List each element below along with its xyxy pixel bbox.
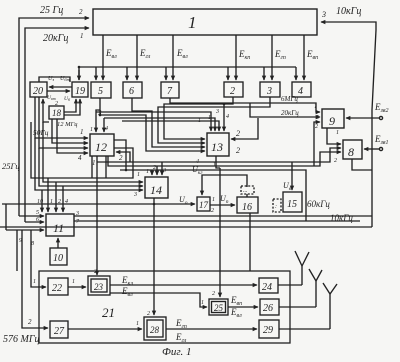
block 25 [209,299,228,315]
block 8 [343,140,362,159]
svg-text:4: 4 [78,154,82,162]
wire 12 bottom stub b [105,156,107,178]
svg-text:25Гц: 25Гц [2,161,20,171]
wire x6 down [5,204,7,230]
junction dot e [78,66,81,69]
wire bundle A3 to 14 [39,148,143,186]
svg-text:1: 1 [80,128,84,136]
svg-text:Eвл: Eвл [121,286,133,298]
wire 23 out Evl [110,293,207,307]
wire 20кГц to 9 [250,103,320,117]
wire to 12 pin4 [103,118,105,132]
wire tap to 11 pin1 [47,178,49,212]
svg-text:2: 2 [334,158,337,164]
wire Uo into 17 [154,203,195,205]
svg-text:576 МГц: 576 МГц [3,334,40,345]
svg-text:2: 2 [147,311,150,317]
wire 20 to 19 lower [47,90,70,92]
wire 5 branch to 12 pin1 [96,110,100,132]
wire 12 right down to band [114,140,126,170]
svg-text:5: 5 [98,86,103,97]
svg-text:Uз: Uз [48,76,54,82]
svg-text:20кГц: 20кГц [281,109,299,117]
wire tap to 11 pin10 [41,190,43,212]
terminal Ezv1 [364,134,388,151]
band line b3 [120,170,306,221]
svg-text:Eвл: Eвл [105,48,117,60]
svg-text::: : [275,204,277,210]
wire branch to 5 [95,67,97,80]
block 18 [49,106,64,119]
wire bundle A1 to 12 right [31,122,133,178]
block 2 [224,82,243,97]
wire 12 bottom to 23 [96,156,98,275]
junction dot b [223,103,226,106]
wire down to 25 [219,168,221,297]
svg-text:1: 1 [72,279,75,285]
svg-text:Фиг. 1: Фиг. 1 [162,346,192,358]
svg-text:5: 5 [36,210,39,216]
wire Uv to 15 [291,162,293,190]
svg-text:4: 4 [226,113,229,120]
svg-text:Uбт: Uбт [60,76,71,82]
wire 20 kHz input [25,28,89,222]
svg-text:1: 1 [314,104,317,110]
block 4 [292,82,311,97]
bus under block 1 [79,67,296,80]
wire 12 bottom stub [91,156,93,178]
svg-text:12 МГц: 12 МГц [57,121,78,128]
antenna 2 [309,269,322,307]
svg-text:Eгл: Eгл [175,332,187,344]
wire left pin line y230 [6,229,44,231]
wire 13 top pin3 line [122,121,219,131]
block 1 [93,9,317,35]
block 27 [50,321,68,338]
svg-text:20: 20 [33,86,43,97]
wire 6МГц to 9 [170,98,320,112]
wire Evp [303,35,305,80]
svg-text:Eгп: Eгп [274,49,286,61]
svg-text:10: 10 [37,199,43,205]
wire 14 bottom to 28 [153,198,155,315]
wire 26 to antenna2 [279,306,316,308]
block 15 [283,192,302,212]
wire branch to 6 [126,67,128,80]
svg-text:2: 2 [211,208,214,214]
wire 13 top pin2 line [104,118,215,131]
svg-text:11: 11 [53,221,64,235]
block 19 [72,82,88,97]
svg-text:2: 2 [79,8,83,16]
wire Ekp [235,35,237,80]
svg-text:Eвп: Eвп [306,49,318,61]
block 26 [260,299,279,315]
svg-text:18: 18 [52,108,62,118]
wire 9 to 8 [327,128,341,144]
svg-text:13: 13 [211,140,223,154]
svg-text:21: 21 [102,305,115,320]
block 23 [88,276,110,295]
wire 14 top pin a [151,170,153,175]
wire 18 to 20 [43,99,49,122]
svg-text:1: 1 [208,115,211,121]
wire branch to 7 [165,67,167,80]
wire Egl [136,35,138,80]
block 14 [145,177,168,198]
svg-text:29: 29 [263,325,273,336]
svg-text:...: ... [243,188,248,194]
svg-text:4: 4 [298,86,303,97]
svg-text:Eзв1: Eзв1 [374,134,388,146]
wire 8 bottom [352,159,372,170]
block 22 [48,278,68,295]
wire 9 down to box21 [16,230,18,271]
svg-text:2: 2 [236,129,240,138]
svg-text:24: 24 [262,282,272,293]
svg-text:3: 3 [321,10,326,19]
svg-text:1: 1 [80,32,84,40]
svg-text:28: 28 [150,325,160,335]
wire tap to 11 pin2 [55,182,57,212]
wire Egp [271,35,273,80]
svg-text:5: 5 [316,115,319,121]
long horizontal Uo line [2,203,154,205]
svg-text:17: 17 [199,200,209,210]
svg-text:Uп: Uп [220,194,229,205]
wire 14 top pin c [161,162,163,175]
wire 13 top pin1 line [96,112,211,131]
svg-text:3: 3 [133,192,137,198]
svg-text:14: 14 [150,183,162,197]
svg-text:1: 1 [212,197,215,203]
antenna 3 [323,283,337,329]
wire branch to 4 [295,67,297,80]
svg-text:Eгл: Eгл [139,48,151,60]
wire 20 to 19 upper [49,86,72,88]
svg-text:6: 6 [129,86,134,97]
wire branch to 2 [227,67,229,80]
wire 18 to 19 b [64,99,80,115]
block 28 [144,317,166,340]
svg-text:22: 22 [52,283,62,294]
wire 13 bottom [216,156,220,168]
svg-text:8: 8 [348,145,354,159]
block 20 [30,82,47,97]
wire 16 dashed stub [246,194,248,197]
svg-text:20кГц: 20кГц [43,33,68,44]
svg-text:4: 4 [65,198,68,205]
svg-text:2: 2 [55,101,58,107]
svg-text:6МГц: 6МГц [281,95,298,103]
wire 25 to 26 [228,306,258,308]
svg-text:15: 15 [287,199,297,210]
wire 8 to 22 [31,230,46,287]
wire Evl2 [172,35,174,80]
block 10 [50,248,67,265]
wire 12 pin2 [116,152,130,162]
svg-text:1: 1 [201,300,204,306]
wire branch to 3 [263,67,265,80]
wire 16 bottom down [249,213,251,271]
wire 23 out Ekl [110,284,257,286]
svg-text:1: 1 [33,279,36,285]
block 24 [259,278,278,293]
svg-text:2: 2 [58,199,61,205]
wire 27 to 28 [68,328,142,330]
svg-text:1: 1 [188,13,197,32]
wire 10 kHz feedback [321,22,376,227]
wire 576 to 27 [22,230,48,328]
wire tap to 11 pin4 [62,186,64,212]
block 17 [197,197,210,211]
svg-text:1: 1 [336,130,339,136]
dashed box above 16 [241,186,254,194]
wire 10 to 11 [57,238,59,248]
block 11 [46,214,74,236]
svg-text:Eзв2: Eзв2 [374,102,388,114]
junction dot c [125,169,128,172]
svg-text:10: 10 [53,253,63,264]
svg-text:25 Гц: 25 Гц [40,5,63,16]
svg-text:2: 2 [28,318,32,326]
svg-text:3: 3 [162,168,166,174]
wire 29 to antenna3 [279,328,330,330]
svg-text:7: 7 [76,219,80,225]
wire 11 pin3 bus [74,215,372,217]
svg-text:25: 25 [214,303,224,313]
wire 5 to 13 in4 [100,115,205,151]
svg-text:2: 2 [315,124,318,130]
svg-text:1: 1 [137,172,140,178]
svg-text:3: 3 [215,109,219,115]
middle box bottom [0,226,372,228]
svg-text:Eкп: Eкп [238,49,250,61]
svg-text:4: 4 [105,125,108,132]
wire 22 to 23 [68,286,86,288]
wire 3 to 13 in2 [158,97,270,143]
band line b4 Ukg [202,175,247,195]
svg-text:2: 2 [94,269,97,275]
wire 18 to 12 in4 [57,119,88,153]
wire 18 to 12 in2 [52,119,88,143]
wire 20 to 12 in1 [35,97,88,138]
svg-text:Uв: Uв [283,181,292,192]
wire band b2 to 8 [108,152,341,166]
block 3 [260,82,280,97]
block 5 [91,82,111,98]
wire 5 to 12 pin1 [99,98,101,115]
wire band to 9 pin2 [314,122,320,166]
wire 18 to 19 a [64,99,76,112]
arrow into 19 top [78,70,80,80]
svg-text:1: 1 [136,321,139,327]
wire 2 to 13 in1 [164,97,233,139]
svg-text:3: 3 [266,86,272,97]
junction dot a [99,114,102,117]
wire 25 Hz input [19,18,89,216]
svg-text:10кГц: 10кГц [336,6,361,17]
svg-text:1: 1 [90,127,93,133]
svg-text:60кГц: 60кГц [307,199,330,209]
svg-text:Eгп: Eгп [175,318,187,330]
junction dot d [153,203,156,206]
svg-text:9: 9 [329,114,335,128]
block 16 [237,197,258,213]
wire bundle A2 to 14 [43,122,143,182]
wire 6 to 13 in3 [132,98,205,147]
wire 24 to antenna1 [278,284,302,286]
svg-text:16: 16 [242,202,252,213]
wire Evl left [102,35,104,80]
svg-text:10кГц: 10кГц [330,213,353,223]
svg-text:Eвл: Eвл [230,307,242,319]
svg-text:23: 23 [94,282,104,292]
terminal Ezv2 [346,102,388,120]
wire 28 to 29 [166,328,257,330]
svg-text:2: 2 [119,154,123,162]
wire 14 top pin b [156,166,158,175]
block 9 [322,109,344,128]
wire 20 to 12 in3 [39,97,88,148]
block 6 [123,82,142,98]
svg-text:1: 1 [50,199,53,205]
dashed box left of 15 [273,199,281,212]
wire Up 17 to 16 [210,204,235,206]
svg-text:6: 6 [36,217,39,223]
svg-text:Uб: Uб [64,96,71,102]
svg-text:Eвл: Eвл [176,48,188,60]
bracket above 20 and 19 [39,77,70,82]
wire band b1 to 8 [97,148,341,162]
svg-text:19: 19 [75,86,85,97]
block 12 [90,134,114,156]
wire bundle A4 to 14 [35,138,143,190]
wire 20khz into pin6 [25,221,44,223]
antenna 1 [295,251,309,285]
svg-text:12: 12 [95,140,107,154]
box 21 [39,271,290,343]
svg-text:1: 1 [198,118,201,124]
svg-text:2: 2 [212,291,215,297]
svg-text:50Гц: 50Гц [33,128,49,137]
svg-text:27: 27 [54,326,65,337]
svg-text:26: 26 [263,303,273,314]
wire 25hz into pin5 [19,215,44,217]
wire 11 pin7 bus [74,220,360,222]
wire into 13 right [231,118,258,139]
block 13 [207,133,229,156]
svg-text:2: 2 [230,86,235,97]
svg-text:Eвп: Eвп [230,295,242,307]
svg-text:2: 2 [236,146,240,155]
wire 13 top pin4 [223,104,225,131]
block 7 [161,82,179,98]
block 29 [259,320,279,338]
